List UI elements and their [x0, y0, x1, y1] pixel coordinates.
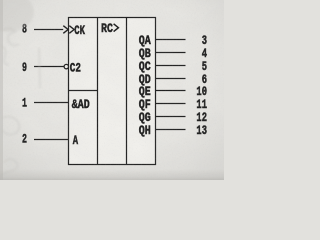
- IC interior fill: [69, 18, 156, 165]
- QH output wire: [156, 129, 186, 131]
- fine scan speckle overlay: [0, 0, 224, 180]
- horizontal separator in control column: [69, 90, 98, 92]
- QG output wire: [156, 116, 186, 118]
- clock input edge chevrons >>: [63, 26, 74, 34]
- QE output wire: [156, 90, 186, 92]
- top-left corner gray blotch: [0, 0, 34, 32]
- left scan shadow band: [0, 0, 3, 180]
- divider between RC column and output column: [126, 18, 128, 165]
- scan ghost artifacts: [0, 28, 40, 176]
- pin 2 wire (A): [34, 139, 69, 141]
- pin 9 wire (C2): [34, 66, 64, 68]
- divider between control and RC column: [97, 18, 99, 165]
- inversion bubble on C2 input: [64, 64, 68, 68]
- pin 8 wire (CK): [34, 29, 63, 31]
- QF output wire: [156, 103, 186, 105]
- QB output wire: [156, 52, 186, 54]
- large scale mottling overlay: [0, 0, 224, 180]
- QD output wire: [156, 78, 186, 80]
- IC U1 outline box: [69, 18, 156, 165]
- QA output wire: [156, 39, 186, 41]
- pin 1 wire (&AD): [34, 102, 69, 104]
- QC output wire: [156, 65, 186, 67]
- RC output chevron >: [114, 24, 119, 32]
- bottom scan shadow band: [0, 169, 224, 180]
- paper background: [0, 0, 224, 180]
